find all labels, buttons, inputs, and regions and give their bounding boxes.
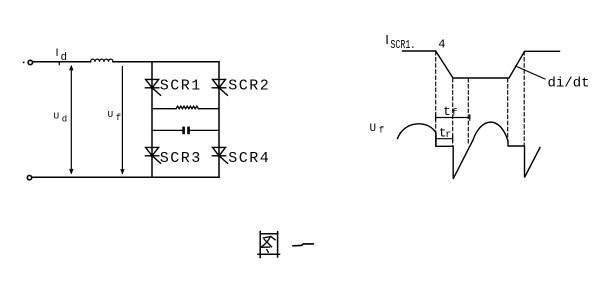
- svg-text:SCR3: SCR3: [160, 150, 202, 167]
- dashed guide x=435.7: [435, 52, 437, 147]
- label SCR4: [228, 150, 270, 167]
- wire: right bridge column (x=219): [218, 62, 220, 178]
- stray dot left of top terminal: [23, 62, 25, 64]
- dashed guide x=468.3: [467, 79, 469, 145]
- svg-text:f: f: [116, 113, 121, 123]
- t_f dimension line: [436, 115, 470, 120]
- svg-text:I: I: [385, 32, 389, 47]
- label SCR2: [228, 78, 270, 95]
- svg-text:r: r: [445, 130, 451, 141]
- dashed guide x=452.7: [452, 79, 454, 147]
- svg-text:SCR1: SCR1: [160, 78, 202, 95]
- wire: resistor to right column: [198, 108, 219, 110]
- wire: snubber resistor branch: [152, 108, 176, 110]
- arrow u_f (double-headed, between rails): [121, 67, 124, 173]
- SCR2 (thyristor, right top): [212, 79, 227, 95]
- caption 图 (hand-drawn box character): [258, 232, 280, 258]
- caption 一: [293, 244, 313, 246]
- label di/dt: [548, 76, 590, 92]
- svg-text:f: f: [379, 125, 384, 135]
- wire: top rail left segment: [33, 61, 91, 63]
- waveform I_SCR (top trace polyline): [403, 51, 560, 78]
- label U_f (waveform): [370, 123, 385, 135]
- resistor R (snubber): [176, 106, 198, 109]
- wire: bottom rail: [32, 176, 219, 178]
- svg-text:d: d: [61, 52, 68, 64]
- svg-text:t: t: [443, 104, 451, 119]
- terminal (bottom-left input): [27, 175, 31, 179]
- svg-text:SCR2: SCR2: [228, 78, 270, 95]
- capacitor C (snubber): [182, 127, 190, 135]
- arrow u_d (double-headed, between rails): [70, 66, 73, 172]
- SCR4 (thyristor, right bottom): [212, 147, 227, 163]
- waveform U_f (commutation notch trace): [398, 122, 541, 179]
- SCR3 (thyristor, left bottom): [145, 147, 160, 163]
- label t_r: [439, 126, 452, 141]
- svg-text:U: U: [108, 109, 114, 120]
- svg-text:SCR4: SCR4: [228, 150, 270, 167]
- dashed guide x=524.2: [523, 52, 525, 147]
- inductor L (smoothing reactor on top rail): [91, 59, 114, 62]
- wire: capacitor to right column: [190, 129, 219, 131]
- label I_SCR1,4: [385, 32, 445, 52]
- svg-text:d: d: [62, 114, 67, 124]
- svg-text:U: U: [54, 110, 60, 121]
- label U_d: [54, 110, 68, 124]
- label t_f: [443, 104, 458, 120]
- terminal (top-left input): [28, 60, 32, 64]
- svg-text:I: I: [56, 47, 59, 59]
- svg-text:SCR1.: SCR1.: [390, 38, 415, 52]
- t_r dimension line: [436, 136, 453, 141]
- svg-text:U: U: [370, 123, 377, 135]
- current tick under I_d label: [58, 62, 60, 65]
- svg-text:di/dt: di/dt: [548, 76, 590, 92]
- wire: top rail right segment: [113, 61, 219, 63]
- SCR1 (thyristor, left top): [145, 79, 160, 95]
- dashed guide x=507.7: [507, 79, 509, 142]
- label U_f: [108, 109, 122, 123]
- wire: snubber capacitor branch left: [152, 129, 182, 131]
- di/dt leader line: [516, 66, 546, 79]
- svg-text:4: 4: [438, 38, 445, 52]
- wire: left bridge column (x=152): [151, 62, 153, 178]
- label SCR1: [160, 78, 202, 95]
- label SCR3: [160, 150, 202, 167]
- svg-text:f: f: [452, 107, 458, 119]
- label I_d: [56, 47, 68, 64]
